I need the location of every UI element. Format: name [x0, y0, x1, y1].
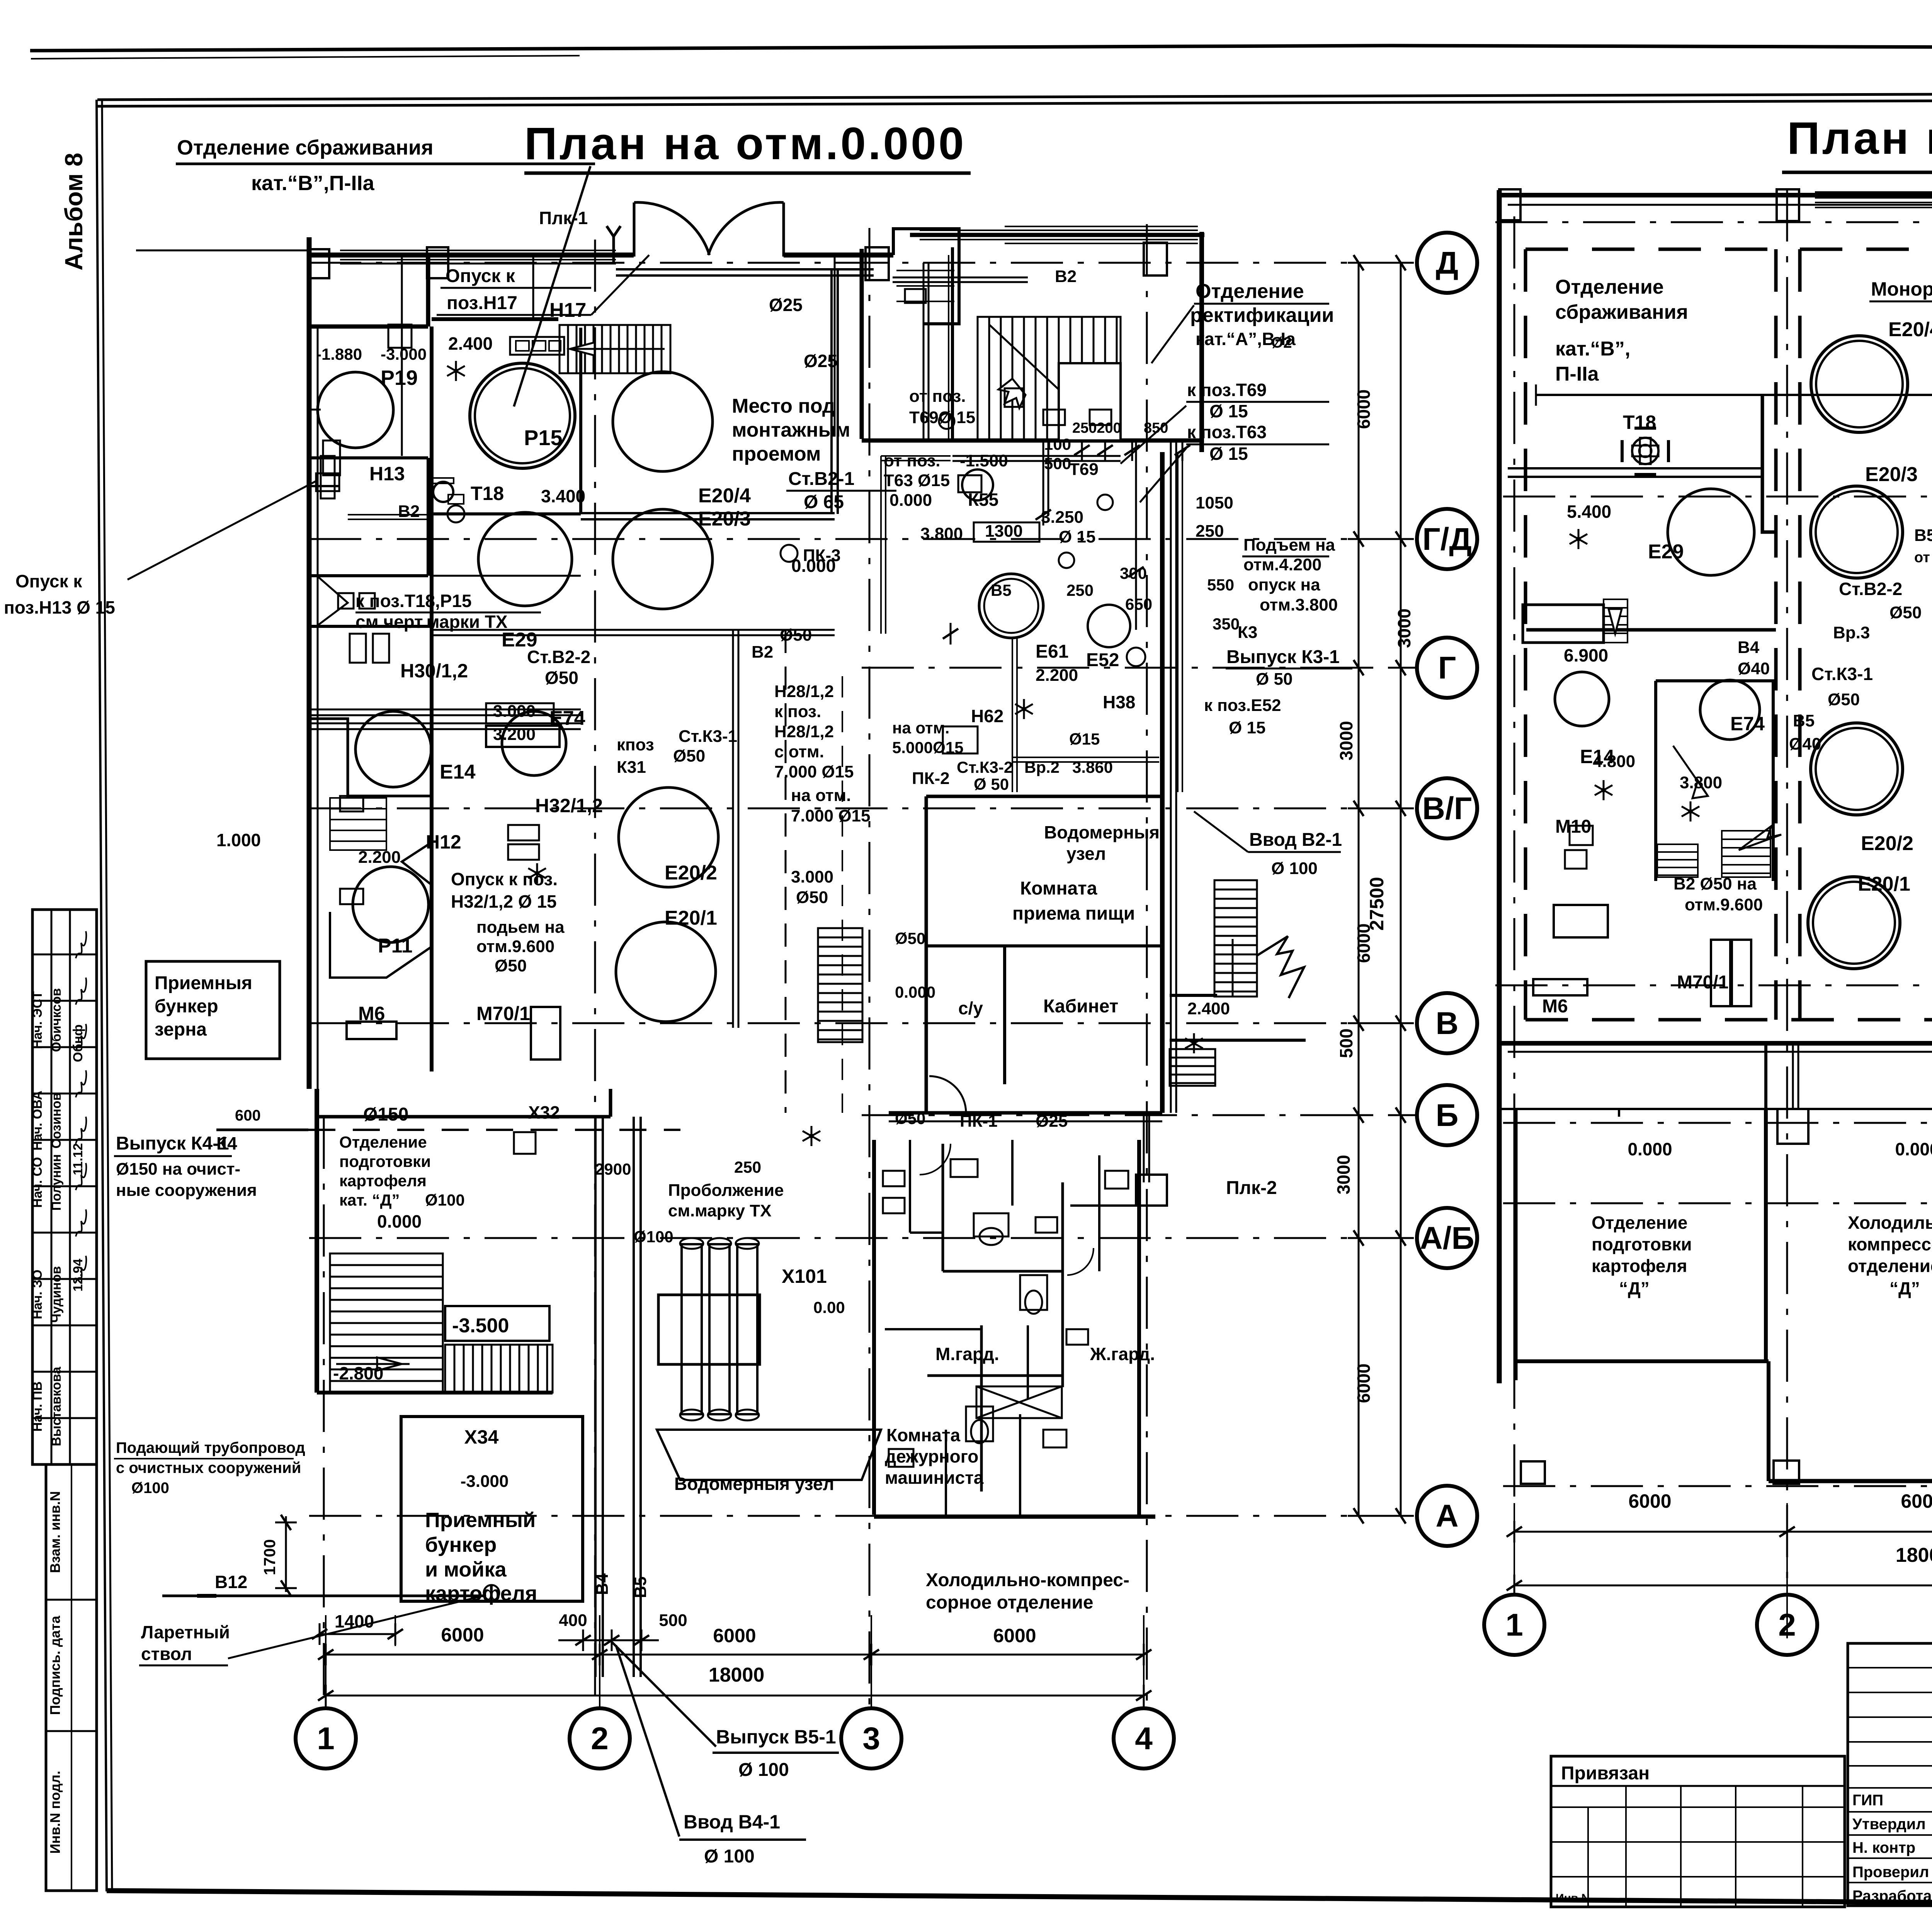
svg-text:картофеля: картофеля [425, 1582, 537, 1605]
svg-text:Ø 15: Ø 15 [1229, 718, 1265, 737]
svg-text:Холодильно-: Холодильно- [1848, 1213, 1932, 1233]
tank E14 left plan [355, 711, 431, 787]
right plan leader lines [1869, 301, 1932, 688]
svg-text:500: 500 [1336, 1029, 1356, 1058]
svg-text:Е52: Е52 [1086, 650, 1119, 670]
entrance double door arcs [634, 202, 784, 257]
svg-text:Полунин: Полунин [49, 1154, 64, 1211]
svg-text:В5: В5 [991, 581, 1012, 599]
right plan bottom texts [1592, 1139, 1932, 1298]
landing walls under stair B [1170, 936, 1306, 1086]
grid line В right plan [1495, 985, 1932, 986]
wall under stairwell rect [862, 439, 1202, 443]
svg-text:кпоз: кпоз [617, 735, 654, 754]
svg-text:В2: В2 [1055, 267, 1077, 286]
svg-text:Ø15: Ø15 [1069, 730, 1100, 748]
svg-text:Выпуск В5-1: Выпуск В5-1 [716, 1726, 836, 1748]
title block signature rows [1852, 1789, 1932, 1905]
right plan window bands top [1815, 192, 1932, 209]
stray plan edge line left [136, 250, 309, 252]
svg-text:“Д”: “Д” [1619, 1278, 1650, 1298]
tank E20/2 right plan [1811, 723, 1903, 815]
left plan rect window band [920, 230, 1198, 240]
svg-text:Г: Г [1438, 650, 1456, 685]
svg-text:600: 600 [235, 1107, 261, 1124]
left plan annotation texts [316, 208, 1342, 1613]
svg-text:7.000 Ø15: 7.000 Ø15 [791, 806, 871, 825]
right plan dashed fire walls [1526, 249, 1932, 1020]
X34 bunker box [401, 1417, 583, 1601]
svg-text:Х32: Х32 [528, 1102, 560, 1122]
svg-text:1300: 1300 [985, 522, 1023, 541]
svg-text:Н. контр: Н. контр [1852, 1839, 1915, 1856]
svg-text:27500: 27500 [1366, 877, 1388, 930]
svg-text:М.гард.: М.гард. [935, 1344, 999, 1364]
right bottom left wall [1506, 1109, 1525, 1380]
pipe labels B4 B5 rotated [593, 1573, 650, 1598]
stairwell rect block [978, 317, 1190, 461]
svg-text:Отделение: Отделение [339, 1133, 427, 1151]
grid line А left plan [309, 1515, 1416, 1517]
lower block west wall [315, 1089, 319, 1393]
svg-text:1050: 1050 [1196, 493, 1233, 512]
svg-text:2: 2 [591, 1721, 609, 1756]
svg-text:В2 Ø50 на: В2 Ø50 на [1673, 874, 1757, 893]
svg-text:бункер: бункер [425, 1533, 497, 1556]
svg-text:12.94: 12.94 [71, 1259, 85, 1291]
svg-text:Место под: Место под [732, 395, 835, 417]
svg-text:В4: В4 [593, 1573, 612, 1595]
svg-text:зерна: зерна [155, 1019, 207, 1040]
svg-text:А/Б: А/Б [1420, 1221, 1475, 1256]
svg-text:6000: 6000 [1628, 1490, 1671, 1512]
svg-text:П-IIа: П-IIа [1555, 363, 1599, 385]
svg-text:Созинов: Созинов [49, 1093, 64, 1149]
svg-text:М6: М6 [1542, 996, 1568, 1017]
svg-text:3.800: 3.800 [920, 524, 963, 543]
machine M70/1 left plan [531, 1007, 560, 1060]
P19 block walls [309, 255, 428, 576]
svg-text:см.марку ТХ: см.марку ТХ [668, 1201, 772, 1220]
dim 1700 vertical [260, 1515, 297, 1596]
svg-text:сорное отделение: сорное отделение [926, 1592, 1094, 1613]
grid bubble А/Б middle column [1417, 1208, 1477, 1268]
svg-text:Т69: Т69 [1069, 460, 1099, 479]
frame top double line [97, 92, 1932, 106]
svg-text:2.200: 2.200 [1036, 666, 1078, 685]
svg-text:1: 1 [317, 1721, 335, 1756]
svg-text:1.000: 1.000 [216, 830, 261, 850]
fixture H62 small [943, 726, 978, 753]
toilet bowls [971, 1228, 1042, 1443]
P15 platform box [510, 337, 564, 355]
svg-text:Е20/2: Е20/2 [1861, 832, 1913, 855]
left plan vertical dimension lines [1348, 255, 1412, 1524]
svg-text:от поз.: от поз. [909, 387, 966, 406]
tank P15 [470, 363, 575, 468]
svg-text:4: 4 [1135, 1721, 1153, 1756]
sanitary inner walls [885, 1140, 1139, 1515]
svg-text:Инв.N: Инв.N [1556, 1892, 1590, 1905]
svg-text:Ввод В4-1: Ввод В4-1 [684, 1811, 780, 1833]
svg-text:2.200: 2.200 [358, 848, 401, 867]
monorail line [1536, 384, 1932, 406]
svg-text:ректификации: ректификации [1190, 304, 1334, 327]
title block privyazan table [1551, 1756, 1845, 1907]
svg-text:компрессорное: компрессорное [1848, 1234, 1932, 1254]
svg-text:Приемныя: Приемныя [155, 973, 252, 993]
right plan top columns [1499, 189, 1932, 221]
vypusk K4 text [114, 1133, 257, 1200]
svg-text:Инв.N подл.: Инв.N подл. [47, 1771, 63, 1854]
grid bubble А middle column [1417, 1486, 1477, 1546]
left plan lower pipe stub [1136, 1113, 1167, 1206]
svg-text:Р19: Р19 [381, 366, 418, 389]
svg-text:отделение: отделение [1848, 1256, 1932, 1276]
right plan bottom dim labels [1628, 1490, 1932, 1566]
svg-text:11.12: 11.12 [71, 1143, 85, 1175]
svg-text:Вр.3: Вр.3 [1833, 623, 1870, 642]
svg-text:Чудинов: Чудинов [49, 1266, 64, 1323]
E74 room walls right plan [1656, 681, 1781, 881]
svg-text:3: 3 [862, 1721, 880, 1756]
svg-text:на отм.: на отм. [892, 719, 949, 737]
grid line Г/Д right plan [1503, 496, 1932, 498]
tank E74 right plan [1700, 680, 1760, 740]
svg-text:приема пищи: приема пищи [1012, 903, 1135, 924]
svg-text:Ø 50: Ø 50 [974, 775, 1009, 793]
svg-text:М70/1: М70/1 [1677, 972, 1728, 993]
boxed labels left plan [486, 522, 1039, 747]
right plan bottom wall [1499, 1043, 1932, 1052]
tank E20/4 left plan [613, 372, 713, 471]
grid bubble В/Г middle column [1417, 778, 1477, 838]
tank E14 right plan [1555, 672, 1609, 726]
column bubble 2 left plan [570, 1708, 630, 1769]
svg-text:отм.9.600: отм.9.600 [476, 937, 554, 956]
tank E20/3 right plan [1811, 486, 1903, 578]
label 1.000 left [216, 830, 261, 850]
svg-text:бункер: бункер [155, 996, 218, 1017]
pipe run B4 B5 left plan [310, 709, 581, 729]
right plan inner wall zig [1526, 395, 1932, 630]
grid bubble Г middle column [1417, 638, 1477, 698]
svg-text:Ø25: Ø25 [769, 295, 803, 315]
svg-text:Ø2: Ø2 [1271, 334, 1292, 351]
svg-text:Водомерныя: Водомерныя [1044, 822, 1160, 842]
room divider su kabinet [1003, 946, 1006, 1084]
svg-text:Кабинет: Кабинет [1043, 996, 1118, 1017]
svg-text:В: В [1435, 1006, 1458, 1041]
title block privyazan text [1556, 1763, 1650, 1905]
svg-text:Обичксов: Обичксов [49, 988, 64, 1052]
svg-text:проемом: проемом [732, 443, 821, 465]
grid line В left plan [309, 1022, 1416, 1024]
svg-text:-1.880: -1.880 [316, 345, 362, 363]
svg-text:2.400: 2.400 [1187, 999, 1230, 1018]
svg-text:18000: 18000 [1896, 1544, 1932, 1566]
svg-text:Г/Д: Г/Д [1422, 522, 1472, 557]
svg-text:Ø150 на очист-: Ø150 на очист- [116, 1160, 240, 1179]
svg-text:М70/1: М70/1 [476, 1003, 530, 1024]
svg-text:2: 2 [1778, 1607, 1796, 1643]
svg-text:Ø50: Ø50 [1828, 690, 1860, 709]
grid bubble В middle column [1417, 993, 1477, 1053]
album label [60, 153, 88, 270]
svg-text:ПК-3: ПК-3 [803, 546, 841, 565]
left plan east wall upper [1199, 232, 1204, 452]
heat exchanger X101 tubes [680, 1238, 759, 1420]
pipe 150 dashed [308, 1129, 680, 1131]
stamp column rotated labels [30, 931, 86, 1446]
svg-text:0.000: 0.000 [1895, 1139, 1932, 1159]
right plan lower pipe stub [1777, 1043, 1808, 1144]
V12 line [162, 1585, 499, 1658]
svg-text:0.000: 0.000 [889, 491, 932, 510]
stamp column upper table [32, 910, 97, 1464]
svg-text:В5 Ø15: В5 Ø15 [1914, 526, 1932, 545]
right plan bottom dim lines [1507, 1503, 1932, 1638]
column axis 2 left plan [594, 240, 596, 1706]
machine M70/1 right plan [1711, 940, 1751, 1006]
svg-text:6000: 6000 [441, 1624, 484, 1646]
label V12 [215, 1572, 247, 1592]
svg-text:В2: В2 [752, 643, 773, 662]
room wall y2470 [926, 944, 1162, 947]
svg-text:Б: Б [1436, 1098, 1459, 1133]
svg-text:Е61: Е61 [1036, 641, 1068, 662]
title block signature table [1848, 1643, 1932, 1906]
svg-text:Опуск к: Опуск к [446, 266, 515, 286]
svg-text:Альбом 8: Альбом 8 [60, 153, 88, 270]
pipe run B2 top left plan [616, 269, 874, 514]
room vodomerny uzel walls [926, 796, 1162, 1113]
svg-text:В12: В12 [215, 1572, 247, 1592]
svg-text:Проверил: Проверил [1852, 1864, 1929, 1881]
svg-text:“Д”: “Д” [1889, 1278, 1920, 1298]
priemny bunker box [146, 961, 280, 1059]
vypusk B5 text [612, 1642, 839, 1780]
svg-text:Н38: Н38 [1103, 692, 1135, 712]
svg-text:Е20/1: Е20/1 [665, 907, 717, 929]
svg-text:0.00: 0.00 [813, 1298, 845, 1316]
svg-text:Разработал: Разработал [1852, 1888, 1932, 1905]
vvod B4 text [616, 1645, 806, 1867]
grid bubble Б middle column [1417, 1085, 1477, 1145]
svg-text:Ст.В2-2: Ст.В2-2 [1839, 579, 1902, 599]
column bubble 1 right plan [1484, 1595, 1544, 1655]
K4 pipe left [216, 1107, 308, 1153]
frame left double line [97, 100, 112, 1891]
grid line А right plan [1503, 1485, 1932, 1487]
stamp column lower table [46, 1464, 97, 1891]
svg-text:1: 1 [1505, 1607, 1523, 1643]
grid line Б left plan [862, 1114, 1416, 1116]
svg-text:0.000: 0.000 [377, 1211, 422, 1231]
svg-text:см.черт.марки ТХ: см.черт.марки ТХ [355, 612, 508, 632]
left plan north window band [340, 250, 616, 260]
svg-text:подготовки: подготовки [339, 1152, 431, 1170]
svg-text:Водомерныя узел: Водомерныя узел [674, 1474, 834, 1494]
svg-text:Е14: Е14 [440, 761, 476, 783]
svg-text:с отм.: с отм. [774, 742, 824, 761]
svg-text:картофеля: картофеля [1592, 1256, 1687, 1276]
left plan north wall west segment [309, 255, 634, 264]
svg-text:машиниста: машиниста [885, 1468, 984, 1488]
svg-text:Холодильно-компрес-: Холодильно-компрес- [926, 1570, 1129, 1590]
H30 fixtures [350, 634, 389, 663]
svg-text:6.900: 6.900 [1564, 645, 1608, 665]
column bubble 3 left plan [841, 1708, 901, 1769]
stair B east of wall [1214, 880, 1257, 997]
hydrant plk1 symbol [607, 226, 621, 263]
svg-text:поз.Н17: поз.Н17 [447, 293, 517, 313]
svg-text:опуск на: опуск на [1248, 575, 1320, 594]
mgr room walls sanitary block [874, 1140, 1155, 1519]
svg-text:Опуск к: Опуск к [15, 571, 82, 591]
svg-text:Нач. ПВ: Нач. ПВ [30, 1381, 45, 1432]
svg-text:Е74: Е74 [1730, 713, 1765, 735]
svg-text:Отделение сбраживания: Отделение сбраживания [177, 136, 434, 159]
left plan bottom dim labels [335, 1611, 1036, 1686]
wall midleft y1621 [309, 625, 432, 628]
svg-text:План на отм.4.800: План на отм.4.800 [1787, 113, 1932, 164]
svg-text:к поз.Т63: к поз.Т63 [1187, 422, 1267, 442]
svg-text:от поз.Р21: от поз.Р21 [1914, 549, 1932, 566]
pipe run T18 right plan [1508, 468, 1762, 477]
pipe risers at E20 column [733, 630, 786, 1113]
svg-text:Выпуск К4-1: Выпуск К4-1 [116, 1133, 229, 1154]
P15 room walls [432, 319, 558, 1071]
grid line Г/Д left plan [309, 538, 1416, 540]
column axis 4 left plan [1146, 224, 1148, 1706]
svg-text:Отделение: Отделение [1555, 276, 1664, 298]
svg-text:18000: 18000 [709, 1664, 765, 1686]
svg-text:6000: 6000 [1354, 1364, 1374, 1403]
svg-text:Подающий трубопровод: Подающий трубопровод [116, 1439, 305, 1456]
left plan porch step outline [893, 229, 959, 324]
stair bottom-center left plan [818, 928, 862, 1042]
svg-text:Е20/4: Е20/4 [698, 485, 751, 507]
svg-text:Комната: Комната [886, 1425, 960, 1445]
svg-text:Р15: Р15 [524, 425, 563, 450]
svg-text:Опуск к поз.: Опуск к поз. [451, 869, 558, 889]
svg-text:кат.“В”,П-IIа: кат.“В”,П-IIа [251, 172, 375, 195]
svg-text:6000: 6000 [713, 1625, 756, 1646]
svg-text:Ø100: Ø100 [425, 1191, 465, 1209]
lower stair boxed -3.500 [445, 1306, 549, 1341]
wall segment x1503 [579, 328, 582, 514]
svg-text:дежурного: дежурного [885, 1446, 978, 1466]
grid bubble Д middle column [1417, 233, 1477, 293]
opusk k H13 text [4, 481, 316, 617]
svg-text:поз.Н13 Ø 15: поз.Н13 Ø 15 [4, 597, 115, 617]
right plan stair small 6900 [1523, 599, 1628, 643]
svg-text:Нач. ЗО: Нач. ЗО [30, 1270, 45, 1320]
svg-text:3.000: 3.000 [493, 702, 536, 721]
title plan 4.800 [1782, 113, 1932, 172]
canopy hatch lines [896, 270, 954, 301]
stair H17 [560, 325, 670, 373]
fixture H13 [316, 456, 339, 498]
svg-text:отм.9.600: отм.9.600 [1685, 895, 1763, 914]
left plan north wall east of doors [784, 253, 893, 258]
svg-text:Ø 100: Ø 100 [704, 1846, 755, 1867]
svg-text:Приемный: Приемный [425, 1509, 536, 1532]
svg-text:1400: 1400 [335, 1611, 374, 1631]
H12 zigzag wall [330, 796, 432, 978]
left plan snowflakes [447, 361, 1203, 1146]
tank E20/4 right plan [1811, 336, 1908, 432]
svg-text:Н17: Н17 [549, 299, 586, 321]
stamp column lower rotated labels [47, 1491, 63, 1854]
svg-text:2.400: 2.400 [448, 333, 493, 354]
svg-text:250200: 250200 [1072, 420, 1121, 436]
svg-text:350: 350 [1213, 615, 1240, 633]
svg-text:Ø150: Ø150 [363, 1104, 408, 1125]
svg-text:Ø 100: Ø 100 [1271, 859, 1318, 878]
svg-text:с/у: с/у [958, 998, 983, 1018]
svg-text:400: 400 [559, 1611, 587, 1630]
tank E29 right plan [1668, 489, 1754, 575]
left plan outer west wall [309, 237, 318, 1089]
svg-text:картофеля: картофеля [339, 1172, 427, 1190]
lower stair treads 2 [445, 1345, 553, 1393]
left plan north wall column blocks [309, 243, 1167, 280]
svg-text:Подпись. дата: Подпись. дата [47, 1616, 63, 1715]
svg-text:Ø50: Ø50 [895, 929, 925, 947]
svg-text:В2: В2 [398, 502, 420, 521]
svg-text:Н12: Н12 [426, 831, 461, 853]
svg-text:к поз.Т69: к поз.Т69 [1187, 380, 1267, 400]
column axis 2 right plan [1786, 189, 1788, 1592]
rect block top wall [910, 226, 1204, 243]
svg-text:3000: 3000 [1394, 609, 1414, 648]
svg-text:Комната: Комната [1020, 878, 1097, 899]
left plan wall y1860 step [309, 719, 432, 796]
svg-text:Е29: Е29 [1648, 541, 1684, 563]
svg-text:4.800: 4.800 [1593, 752, 1635, 771]
pipe run B2 mid left plan [432, 630, 835, 635]
svg-text:План на отм.0.000: План на отм.0.000 [524, 118, 966, 169]
tank P19 [318, 372, 393, 448]
svg-text:кат. “Д”: кат. “Д” [339, 1191, 400, 1209]
svg-text:подготовки: подготовки [1592, 1234, 1692, 1254]
tank E29 left plan [478, 512, 572, 606]
svg-text:850: 850 [1144, 420, 1168, 436]
svg-text:Н32/1,2 Ø 15: Н32/1,2 Ø 15 [451, 891, 557, 912]
svg-text:подьем на: подьем на [476, 918, 565, 937]
svg-text:Р11: Р11 [378, 935, 413, 957]
svg-text:Ø50: Ø50 [895, 1109, 925, 1128]
svg-text:Т18: Т18 [471, 483, 504, 504]
svg-text:Нач. ЭСТ: Нач. ЭСТ [30, 991, 45, 1049]
svg-text:6000: 6000 [1354, 389, 1374, 429]
svg-text:-2.800: -2.800 [333, 1363, 383, 1383]
svg-text:-3.000: -3.000 [461, 1472, 509, 1491]
title plan 0.000 [524, 118, 971, 173]
svg-text:Ввод В2-1: Ввод В2-1 [1249, 830, 1342, 850]
pipe phi150 label [363, 1104, 408, 1125]
machine M10 right plan [1554, 826, 1608, 937]
svg-text:Взам. инв.N: Взам. инв.N [47, 1491, 63, 1573]
tank E74 left plan [502, 711, 566, 776]
svg-text:ПК-1: ПК-1 [960, 1112, 998, 1131]
svg-text:Монорельс Q=1m: Монорельс Q=1m [1871, 278, 1932, 300]
svg-text:Н28/1,2: Н28/1,2 [774, 682, 834, 701]
grid bubble Г/Д middle column [1417, 509, 1477, 569]
svg-text:Отделение: Отделение [1592, 1213, 1687, 1233]
